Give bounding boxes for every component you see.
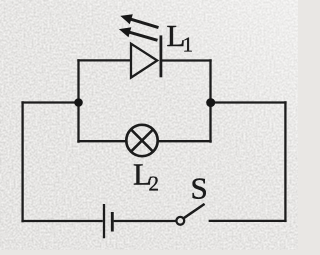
wire: left branch vertical through node bbox=[77, 59, 79, 142]
wire: switch to right rail bbox=[209, 220, 287, 222]
svg-text:2: 2 bbox=[149, 172, 160, 196]
LED L1: diode triangle bbox=[131, 44, 157, 78]
wire: right rail vertical bbox=[284, 101, 286, 222]
wire: top-left horizontal (node to left rail) bbox=[21, 101, 78, 103]
wire: bottom-left (rail to battery) bbox=[21, 220, 102, 222]
wire: right branch vertical through node bbox=[209, 59, 211, 142]
battery: long plate (positive) bbox=[103, 204, 105, 238]
node B: right junction dot bbox=[206, 98, 215, 107]
lamp L2: cross stroke 2 bbox=[131, 130, 153, 152]
LED L1: lower emission arrow shaft bbox=[128, 32, 157, 40]
wire: lamp branch right segment bbox=[158, 140, 212, 142]
wire: left rail vertical bbox=[21, 101, 23, 222]
wire: lamp branch left segment bbox=[77, 140, 126, 142]
wire: top-right horizontal (node to right rail) bbox=[211, 101, 287, 103]
LED L1: upper emission arrow head bbox=[120, 14, 133, 24]
LED L1: upper emission arrow shaft bbox=[130, 19, 159, 28]
switch S: lever arm bbox=[184, 204, 205, 218]
LED L1: lower emission arrow head bbox=[119, 27, 131, 37]
lamp L2: circle bbox=[126, 125, 157, 156]
lamp L2: cross stroke 1 bbox=[131, 130, 153, 152]
LED L1: cathode bar bbox=[159, 35, 162, 77]
wire: LED branch left segment bbox=[77, 59, 130, 61]
switch S: pivot circle bbox=[176, 217, 184, 225]
wire: battery to switch bbox=[114, 220, 177, 222]
svg-text:1: 1 bbox=[183, 33, 194, 57]
node A: left junction dot bbox=[74, 98, 83, 107]
battery: short plate (negative) bbox=[111, 212, 114, 232]
wire: LED branch right segment bbox=[161, 59, 212, 61]
svg-text:S: S bbox=[191, 171, 208, 206]
